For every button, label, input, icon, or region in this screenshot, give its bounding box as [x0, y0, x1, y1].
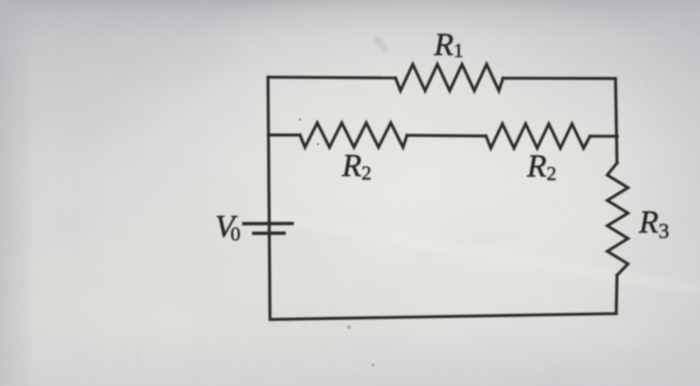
wire middle-center: [407, 134, 486, 138]
wire middle-left: [268, 134, 300, 137]
resistor R1: [396, 64, 504, 90]
resistor R3: [607, 163, 628, 275]
wire bottom: [270, 314, 616, 320]
battery V0: [244, 224, 292, 234]
resistor R2 (right): [486, 124, 590, 148]
wire middle-right: [590, 135, 617, 138]
glare streak: [256, 215, 700, 290]
wire right vertical upper: [616, 79, 618, 164]
vertical paper streaks: [22, 0, 201, 386]
smudge marks: [374, 39, 387, 52]
wire left vertical: [268, 77, 270, 319]
resistor R2 (left): [300, 123, 407, 148]
wire right vertical lower: [615, 275, 619, 313]
wire top-right horizontal: [503, 77, 616, 80]
wire top-left horizontal: [268, 76, 396, 80]
